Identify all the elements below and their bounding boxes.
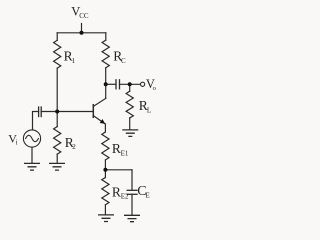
ground below RL bbox=[122, 130, 138, 137]
capacitor Co plate right bbox=[119, 80, 121, 89]
svg-text:R: R bbox=[112, 141, 121, 156]
junction dot RL node bbox=[128, 82, 132, 86]
wire RL bottom lead bbox=[129, 118, 131, 129]
transistor Q1 emitter arrow bbox=[100, 119, 105, 124]
junction dot collector node bbox=[104, 82, 108, 86]
wire RL top lead bbox=[129, 84, 131, 91]
capacitor CE plate top bbox=[127, 189, 137, 191]
wire Co to Vo terminal bbox=[120, 83, 141, 85]
svg-text:R: R bbox=[112, 184, 121, 199]
svg-text:E1: E1 bbox=[121, 150, 129, 158]
resistor RC bbox=[102, 40, 109, 68]
resistor RE2 bbox=[102, 178, 109, 205]
svg-text:CC: CC bbox=[79, 12, 89, 20]
resistor R2 bbox=[54, 127, 61, 155]
capacitor Co plate left bbox=[115, 80, 117, 89]
wire Vi to ground bbox=[31, 147, 33, 163]
wire emitter node to CE bbox=[105, 169, 132, 171]
ground below Vi bbox=[24, 163, 40, 170]
wire R2 bottom lead bbox=[56, 154, 58, 163]
transistor Q1 base bar bbox=[92, 105, 94, 118]
wire CE to ground bbox=[131, 194, 133, 214]
source Vi circle bbox=[23, 130, 40, 147]
wire top rail bbox=[57, 32, 106, 34]
svg-text:1: 1 bbox=[72, 57, 76, 65]
wire base bbox=[57, 111, 92, 113]
wire R1 top lead bbox=[56, 33, 58, 41]
svg-text:o: o bbox=[153, 85, 156, 92]
ground below RE2 bbox=[98, 215, 114, 222]
wire collector bbox=[105, 68, 107, 98]
capacitor Ci plate right bbox=[40, 107, 42, 117]
capacitor Ci plate left bbox=[38, 107, 40, 117]
terminal Vo circle bbox=[141, 82, 145, 86]
svg-text:E2: E2 bbox=[121, 193, 129, 201]
transistor Q1 emitter diagonal bbox=[93, 116, 105, 124]
ground below CE bbox=[124, 215, 140, 221]
wire CE top lead bbox=[131, 170, 133, 190]
wire emitter to RE1 bbox=[104, 124, 106, 132]
junction dot emitter node bbox=[103, 168, 107, 172]
ground below R2 bbox=[49, 163, 65, 170]
resistor RL bbox=[126, 91, 133, 118]
wire Vi riser to cap bbox=[33, 112, 39, 130]
wire R1 bottom to base node and R2 top bbox=[56, 68, 58, 126]
capacitor CE plate bottom bbox=[127, 193, 137, 195]
wire input cap to base node bbox=[41, 111, 57, 113]
wire RE1 bottom to RE2 top bbox=[104, 160, 106, 177]
resistor R1 bbox=[54, 40, 61, 68]
wire collector node to Co bbox=[106, 83, 116, 85]
junction dot base node bbox=[55, 110, 59, 114]
resistor RE1 bbox=[102, 132, 109, 160]
svg-text:E: E bbox=[146, 192, 150, 200]
svg-text:i: i bbox=[16, 139, 18, 147]
svg-text:L: L bbox=[147, 107, 151, 115]
node VCC supply stub bbox=[81, 24, 83, 33]
junction dot VCC bbox=[80, 31, 84, 35]
wire RE2 bottom lead bbox=[104, 205, 106, 214]
wire RC top lead bbox=[105, 33, 107, 40]
transistor Q1 collector diagonal bbox=[93, 98, 105, 106]
svg-text:C: C bbox=[121, 57, 126, 65]
source Vi sine bbox=[26, 135, 39, 141]
svg-text:2: 2 bbox=[72, 143, 76, 151]
